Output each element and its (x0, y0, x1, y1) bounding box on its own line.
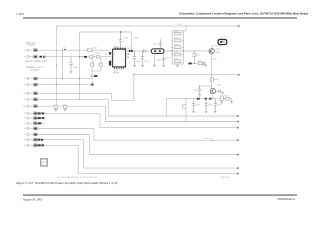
svg-text:C0225: C0225 (193, 89, 197, 91)
node junction B1 x78 (79, 78, 80, 79)
svg-text:UNSW_B+_FILTERED (SHT 2): UNSW_B+_FILTERED (SHT 2) (26, 61, 48, 63)
wire S2 to U0201 (44, 56, 111, 58)
inductor chip on S2 run (84, 56, 87, 58)
wire fan line 3 (100, 113, 237, 127)
inductor bead on row B2 (34, 83, 38, 86)
svg-text:E0S1: E0S1 (34, 48, 37, 50)
pin numbers top edge of U0201 (115, 48, 116, 50)
node junction S1 x62.6 (62, 50, 63, 51)
wire vertical x79.4 feed (78, 32, 80, 99)
svg-text:C0212: C0212 (165, 58, 169, 60)
wire row B11 to staircase (44, 139, 84, 141)
wire row B2 run (38, 84, 93, 86)
resistor R0214 (193, 54, 196, 57)
resistor R0231 across bus (220, 96, 223, 100)
wire left feed vertical from +7.5V rail (55, 26, 57, 106)
resistor R0216 (198, 62, 202, 64)
capacitor chip on row B8 (38, 122, 41, 124)
svg-text:R0252: R0252 (63, 104, 67, 106)
node junction S2 at x81.8 (81, 56, 82, 57)
header rule (23, 17, 297, 19)
resistor R0244 on S2 run (96, 56, 99, 58)
inductor L0202 chip (189, 63, 192, 65)
wire fan line 5 (89, 135, 236, 155)
svg-text:R0223: R0223 (175, 44, 179, 46)
wire distribution rail y74.7 (134, 74, 239, 76)
svg-text:+7.5V: +7.5V (177, 24, 183, 26)
svg-text:SP: SP (24, 139, 26, 141)
pad fan line 7 end (237, 173, 239, 175)
svg-text:E07: E07 (34, 115, 37, 117)
node junction on fan line 2 (185, 121, 186, 122)
svg-text:R0217: R0217 (213, 59, 217, 61)
wire rail y74.7 end pad (238, 74, 240, 76)
wire fan line 1 (108, 99, 237, 116)
capacitor C0226 (218, 90, 221, 93)
node junction x56.3 row B2 (56, 84, 57, 85)
capacitor C0225 to ground (198, 86, 201, 93)
node junction x56.3 y65 (56, 65, 57, 66)
svg-text:R0230: R0230 (225, 95, 229, 97)
inductor bead on row B1 (34, 77, 38, 80)
transformer T0201 (151, 49, 164, 54)
node junction base rail left (199, 86, 200, 87)
node junction fan line 4 (212, 140, 213, 141)
resistor R0218 (210, 78, 213, 81)
node junction base network (194, 50, 195, 51)
svg-text:C0234: C0234 (208, 105, 212, 107)
node junction on inner loop (120, 31, 122, 33)
ground below C0240 (70, 71, 73, 74)
capacitor C0206 chip (129, 50, 131, 52)
pin stub right side 2 of U0201 (126, 53, 128, 55)
note box border outer (40, 159, 47, 167)
net +7.5V rail wire (56, 25, 239, 27)
capacitor C0230 chip on bus (209, 98, 211, 100)
pin numbers inside left edge of U0201 (113, 52, 115, 66)
svg-text:EN: EN (24, 93, 26, 95)
ground below R0231 (220, 101, 223, 104)
pad fan line 2 end (237, 121, 239, 123)
svg-text:C0233: C0233 (196, 105, 200, 107)
resistor R0252 below row B5 (64, 105, 67, 108)
ground below resistor ladder (176, 64, 179, 67)
inductor L0204 chip on bus (197, 98, 200, 100)
svg-text:GD: GD (23, 128, 25, 130)
transistor Q0202 (210, 89, 215, 94)
capacitor C0215 to ground (203, 62, 206, 65)
svg-text:C0240: C0240 (73, 67, 77, 69)
svg-text:E09: E09 (34, 126, 37, 128)
capacitor chip on row B11 (38, 139, 41, 141)
svg-text:U0201: U0201 (113, 71, 118, 73)
wire row B9 to staircase (38, 128, 95, 130)
capacitor C0212 with ground (162, 54, 165, 65)
resistor R0205 (88, 49, 93, 52)
inductor bead on row S1 (34, 49, 38, 52)
svg-text:Q0201: Q0201 (216, 48, 221, 50)
wire vertical x101 down to y71 (100, 57, 102, 71)
wire fan line 6 (84, 140, 237, 168)
wire fan line 4 (94, 129, 237, 141)
ground right of C0215 (204, 64, 207, 67)
svg-text:E012: E012 (34, 143, 37, 145)
resistor R0223 in ladder (174, 46, 181, 49)
resistor R0246 (99, 63, 102, 66)
svg-text:PT: PT (24, 84, 26, 86)
pin name block dark upper (109, 52, 111, 54)
capacitor chip on row S2 (39, 56, 42, 58)
capacitor C0235 below bus (214, 99, 217, 110)
pin stub right side of U0201 (126, 50, 129, 52)
inductor bead on row B10 (34, 133, 38, 136)
svg-text:C0202: C0202 (127, 48, 131, 50)
svg-text:E0S2: E0S2 (34, 54, 37, 56)
pin specks right of U0201 (128, 54, 129, 55)
wire row B10 to staircase (38, 134, 90, 136)
ground below C0211 (141, 64, 144, 67)
svg-text:TP: TP (24, 113, 26, 115)
node +7.5V junction (185, 25, 186, 26)
capacitor C0211 with ground (141, 51, 144, 64)
wire vertical bias divider (194, 51, 196, 64)
ground at bus right end (230, 100, 233, 103)
svg-text:R0207: R0207 (134, 38, 138, 40)
node junction bus left drop (185, 98, 186, 99)
ground right of C0226 (221, 91, 224, 94)
resistor R0243 on S2 run (90, 56, 93, 58)
resistor R0230 at bus end (225, 97, 229, 100)
svg-text:R0209: R0209 (157, 60, 161, 62)
inductor bead on row B4 (34, 98, 38, 101)
ground below R0252 (64, 109, 67, 112)
wire bus end to ground (229, 99, 231, 101)
connector label box E0202 (183, 105, 186, 109)
chip bead on +5V line (64, 49, 65, 50)
resistor R0224 in ladder (174, 53, 181, 56)
wire output bus (166, 98, 229, 100)
wire Q0202 to bus (212, 94, 214, 99)
svg-text:7-164: 7-164 (16, 12, 24, 16)
svg-text:VC: VC (24, 123, 26, 125)
node junction on fan line 1 (166, 115, 167, 116)
capacitor chip on row S2 (43, 56, 46, 58)
ground below C0235 (214, 110, 217, 113)
node junction x133.8 on rail (133, 74, 134, 75)
svg-text:C0210: C0210 (137, 61, 141, 63)
svg-text:VF: VF (24, 99, 26, 101)
node ladder rail junction left (171, 46, 174, 49)
inductor bead on row B8 (34, 122, 38, 125)
pad fan line 4 end (237, 139, 239, 141)
node ladder rail junction left (171, 39, 174, 42)
svg-text:E03: E03 (34, 91, 37, 93)
pad fan line 1 end (237, 115, 239, 117)
inductor L0205 chip on bus (205, 98, 207, 100)
transistor Q0202 emitter stub right (216, 90, 218, 92)
inductor bead on row B12 (34, 144, 38, 147)
svg-text:(SHT 2 PG 1): (SHT 2 PG 1) (221, 177, 231, 179)
capacitor C0209 above T0201 (159, 39, 162, 48)
wire Q0201 emitter chain down (211, 75, 213, 78)
wire +7.5V rail end pad (238, 25, 240, 27)
op-amp U0201 PWM controller body (113, 49, 126, 67)
wire fan line 2 (105, 106, 236, 121)
svg-text:IS: IS (24, 118, 25, 120)
ground below C0233 (192, 110, 195, 113)
svg-text:R0224: R0224 (175, 52, 179, 54)
wire fan line 7 (78, 145, 237, 173)
ground below C0210 (133, 64, 136, 67)
svg-text:J0202: J0202 (219, 38, 223, 40)
inductor bead on row B9 (34, 127, 38, 130)
svg-text:E01: E01 (34, 76, 37, 78)
capacitor chip on row B7 (38, 117, 41, 119)
wire bias lower rail (187, 63, 203, 65)
pad fan line 6 end (237, 167, 239, 169)
wire S1 drop to row B1 (62, 50, 64, 78)
pin stubs bottom of U0201 (113, 67, 115, 69)
wire U0201 output to Q0201 base (128, 50, 209, 52)
capacitor C0204 (119, 32, 122, 49)
svg-text:C0204: C0204 (124, 38, 128, 40)
node ladder rail junction right (182, 46, 185, 49)
wire vertical x92 down to row B2 (91, 57, 93, 84)
svg-text:C0235: C0235 (217, 105, 221, 107)
capacitor chip on row B12 (38, 144, 41, 146)
wire bus drop to fan line 2 (185, 99, 187, 122)
svg-text:TX: TX (24, 50, 26, 52)
node junction bias lower (194, 63, 195, 64)
pin stubs left side of U0201 (111, 52, 113, 54)
svg-text:Figure 7-127. HLF4017A RF Pow: Figure 7-127. HLF4017A RF Power Amplifie… (16, 181, 117, 185)
node junction on wire y74.7 (211, 74, 212, 75)
capacitor chip on row B6 (38, 112, 41, 114)
wire row B7 run (45, 117, 46, 119)
svg-text:E011: E011 (34, 137, 37, 139)
wire row B5 to staircase (38, 105, 106, 107)
capacitor chip on row B12 (41, 144, 44, 146)
inductor bead on row S2 (34, 55, 38, 58)
svg-text:R0225: R0225 (175, 58, 179, 60)
wire row B8 run (42, 122, 45, 124)
node ladder rail junction right (182, 53, 185, 56)
note box border inner (41, 159, 47, 165)
resistor ladder frame (172, 31, 183, 51)
svg-text:FB: FB (105, 59, 107, 61)
capacitor C0208 series (142, 49, 146, 52)
capacitor C0245 label (94, 75, 97, 77)
svg-text:E06: E06 (34, 111, 37, 113)
RF power module M0201 (218, 40, 227, 45)
capacitor C0207 chip (131, 50, 133, 52)
wire Q0201 collector to module (212, 45, 222, 49)
node junction S2 at x79.4 (79, 56, 80, 57)
svg-text:E08: E08 (34, 121, 37, 123)
svg-text:C0226: C0226 (217, 84, 221, 86)
node junction Q0202 on bus (212, 98, 213, 99)
capacitor chip on row B6 (41, 112, 44, 114)
node junction S1/row B1 (62, 78, 63, 79)
resistor R0245 (91, 63, 94, 66)
inductor bead on row B11 (34, 138, 38, 141)
node ladder right rail on output net (183, 50, 184, 51)
svg-text:E04: E04 (34, 97, 37, 99)
svg-text:R0218: R0218 (214, 79, 218, 81)
svg-text:6816532H01-A: 6816532H01-A (278, 197, 296, 201)
svg-text:M9413: M9413 (216, 52, 221, 54)
node junction x79.4 row B2 (79, 84, 80, 85)
svg-text:August 24, 2007: August 24, 2007 (23, 198, 43, 202)
svg-text:R0221: R0221 (175, 31, 179, 33)
node junction x79.4 row B4 (79, 99, 80, 100)
inductor bead on row B7 (34, 117, 38, 120)
svg-text:E010: E010 (34, 132, 37, 134)
wire T0201 tap to ground (154, 54, 156, 64)
footer rule (23, 194, 297, 196)
resistor R0225 in ladder (174, 60, 181, 63)
wire row B4 to staircase (38, 98, 109, 100)
resistor R0221 in ladder (174, 32, 181, 35)
resistor R0222 in ladder (174, 39, 181, 42)
svg-text:E05: E05 (34, 104, 37, 106)
ground below C0225 (198, 94, 201, 97)
capacitor C0210 with ground (133, 51, 136, 64)
svg-text:R0214: R0214 (197, 55, 201, 57)
pad fan line 5 end (237, 154, 239, 156)
inductor bead on row B6 (34, 112, 38, 115)
pin name block dark lower (109, 61, 111, 66)
ground below C0212 (162, 64, 165, 67)
wire S1 +5V feed to U0201 (38, 49, 111, 51)
wire Q0201 emitter down to +7.5V dist (211, 54, 213, 75)
node ladder rail junction left (171, 53, 174, 56)
inductor bead at x92 row B2 junction (91, 84, 94, 86)
svg-text:KY: KY (24, 78, 26, 80)
ground below R0251 (55, 109, 58, 112)
capacitor C0240 to ground (69, 57, 72, 71)
wire cross link y71 (92, 70, 101, 72)
ground below C0234 (205, 110, 208, 113)
svg-text:Schematics, Component Location: Schematics, Component Location Diagrams,… (179, 11, 308, 15)
svg-text:VC: VC (105, 54, 107, 56)
wire row B6 to staircase (45, 112, 100, 114)
resistor R0251 below row B5 (54, 105, 57, 108)
inductor bead on row B5 (34, 105, 38, 108)
wire base rail Q0202 (200, 85, 212, 87)
svg-text:R0251: R0251 (54, 104, 58, 106)
wire +7.5V drop to resistor ladder (183, 26, 186, 31)
svg-text:R0216: R0216 (198, 60, 202, 62)
svg-text:8486: 8486 (42, 164, 45, 166)
wire row B3 staircase to rail y74.7 (38, 75, 134, 101)
capacitor chip on row B11 (41, 139, 43, 141)
pin stub right side 3 of U0201 (126, 56, 128, 58)
wire bus left end down to fan line 1 (165, 99, 167, 116)
capacitor C0233 below bus (192, 99, 195, 110)
wire inner loop top (79, 32, 131, 51)
svg-text:VG1: VG1 (23, 106, 26, 108)
node junction above Q0202 (211, 86, 212, 87)
inductor bead on row B3 (34, 92, 38, 95)
capacitor chip on row B7 (42, 117, 45, 119)
svg-text:R0205: R0205 (93, 48, 97, 50)
node junction x56.3 row B5 (56, 106, 57, 107)
wire resistor to Q0202 (211, 81, 213, 88)
svg-text:RX: RX (24, 56, 26, 58)
svg-text:R0222: R0222 (175, 37, 179, 39)
svg-text:T0201: T0201 (153, 44, 157, 46)
capacitor C0234 below bus (204, 99, 207, 110)
pad fan line 3 end (237, 127, 239, 129)
wire row B12 to staircase (45, 144, 78, 146)
node ladder left rail on output net (172, 50, 173, 51)
ground below T0201 (153, 64, 156, 67)
transistor Q0201 driver (209, 49, 214, 54)
svg-text:C0211: C0211 (145, 61, 149, 63)
svg-text:E02: E02 (34, 82, 37, 84)
svg-text:G2: G2 (24, 134, 26, 136)
node ladder rail junction right (182, 39, 185, 42)
wire row B1 run (38, 78, 93, 80)
node junction x92 y71 (92, 70, 93, 71)
